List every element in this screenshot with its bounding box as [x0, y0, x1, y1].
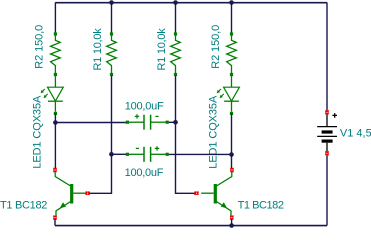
node top B	[109, 0, 114, 5]
node top C	[173, 0, 178, 5]
plus sign C2	[155, 146, 159, 150]
pin collector T1 left	[53, 168, 56, 172]
pin battery minus	[325, 151, 328, 155]
svg-text:R1 10,0k: R1 10,0k	[156, 28, 168, 71]
node top D	[229, 0, 234, 5]
minus sign C2	[136, 147, 139, 149]
wire bottom rail	[55, 225, 327, 227]
wire cap2 right	[169, 153, 232, 155]
wire column B top	[111, 3, 113, 34]
node D cap2 right	[229, 152, 234, 157]
node bottom rail D	[229, 223, 234, 228]
pin emitter T1 right	[230, 216, 233, 220]
pin emitter T1 left	[53, 216, 56, 220]
node B cap2 left	[109, 152, 114, 157]
wire column D top	[231, 3, 233, 34]
wire column B middle	[89, 76, 112, 194]
svg-text:R2 150,0: R2 150,0	[33, 25, 45, 69]
wire column A top	[54, 3, 56, 34]
svg-text:R1 10,0k: R1 10,0k	[92, 28, 104, 71]
battery V1 4,5	[317, 113, 337, 151]
transistor T1 right BC182	[201, 172, 232, 217]
minus sign C1	[155, 115, 158, 117]
svg-text:100,0uF: 100,0uF	[125, 167, 164, 179]
wire column D LED to collector	[231, 114, 233, 169]
wire column C top	[175, 3, 177, 34]
pin battery plus	[325, 110, 328, 114]
wire cap1 left	[55, 122, 126, 124]
resistor R1 right	[171, 32, 181, 76]
svg-text:T1 BC182: T1 BC182	[0, 200, 47, 212]
svg-text:R2 150,0: R2 150,0	[210, 25, 222, 69]
plus sign C1	[135, 114, 139, 118]
svg-text:T1 BC182: T1 BC182	[238, 200, 284, 212]
LED LED1 left CQX35A	[41, 76, 64, 116]
pin base T1 left	[86, 192, 90, 195]
svg-text:LED1 CQX35A: LED1 CQX35A	[207, 95, 219, 169]
capacitor C1 100,0uF	[126, 115, 169, 130]
resistor R2 right	[227, 32, 237, 76]
wire column A LED to collector	[54, 114, 56, 169]
wire emitter right to bottom rail	[231, 219, 233, 226]
svg-text:100,0uF: 100,0uF	[125, 100, 164, 112]
node C cap1 right	[173, 120, 178, 125]
wire column C middle	[176, 76, 196, 194]
LED LED1 right CQX35A	[217, 76, 240, 116]
wire top rail	[55, 2, 327, 4]
svg-text:LED1 CQX35A: LED1 CQX35A	[31, 95, 43, 169]
pin base T1 right	[195, 192, 199, 195]
pin collector T1 right	[230, 168, 233, 172]
wire emitter left to bottom rail	[54, 219, 56, 226]
wire cap2 left	[111, 153, 126, 155]
wire cap1 right	[169, 121, 176, 123]
node A cap1 left	[53, 120, 58, 125]
resistor R1 left	[107, 32, 117, 76]
resistor R2 left	[51, 32, 61, 76]
transistor T1 left BC182	[55, 172, 86, 217]
capacitor C2 100,0uF	[126, 147, 169, 162]
svg-text:V1 4,5: V1 4,5	[340, 127, 371, 139]
wire battery top	[326, 3, 328, 111]
wire battery bottom	[326, 155, 328, 225]
